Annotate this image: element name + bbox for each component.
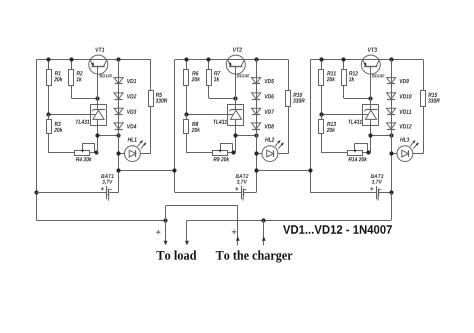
node load plus junction — [163, 218, 167, 222]
LED HL1 — [119, 138, 147, 162]
diode VD6 — [252, 93, 274, 100]
LED HL3 — [391, 137, 419, 161]
transistor VT1 — [89, 48, 112, 105]
node R1 top junction — [46, 57, 50, 61]
wire R7 to base of VT2 — [209, 86, 236, 99]
resistor R6 — [184, 60, 201, 115]
diode VD8 — [252, 123, 274, 130]
wire load minus terminal — [185, 220, 189, 245]
node battery 3 minus junction — [389, 190, 393, 194]
transistor VT2 — [226, 48, 249, 106]
diode VD2 — [114, 93, 136, 100]
node divider junction block 3 — [319, 112, 323, 116]
wire R2 to base of VT1 — [71, 86, 97, 99]
wire pack minus bus — [187, 220, 391, 222]
node collector junction VT1 — [116, 57, 120, 61]
wire charger plus loop — [166, 206, 238, 241]
node plus label charger — [232, 230, 237, 235]
wire TL431 anode link block 2 — [235, 135, 256, 153]
resistor R11 — [319, 60, 336, 115]
resistor R12 — [342, 60, 358, 86]
diode VD9 — [387, 78, 409, 84]
potentiometer R14 — [348, 143, 371, 161]
diode VD5 — [252, 78, 274, 84]
op-amp U1 TL431 — [76, 105, 107, 136]
wire diode chain block 2 — [256, 60, 258, 193]
node R9 junction — [231, 150, 235, 154]
potentiometer R4 — [75, 143, 98, 161]
node R7 top junction — [206, 57, 210, 61]
node R6 top junction — [184, 57, 188, 61]
wire pack plus bus — [36, 220, 165, 222]
wire diode chain block 1 — [118, 60, 120, 193]
LED HL2 — [256, 137, 284, 161]
wire top rail block 1 — [36, 59, 150, 61]
node base junction VT3 — [368, 96, 372, 100]
diode VD7 — [252, 108, 275, 114]
node rail A to block2 rail — [172, 168, 176, 172]
diode VD12 — [387, 123, 412, 130]
resistor R5 — [140, 60, 167, 154]
wire ref line to TL431 block 1 — [49, 114, 95, 116]
resistor R7 — [207, 60, 221, 86]
wire left rail block 3 — [310, 60, 312, 193]
wire pack minus down — [391, 193, 393, 221]
diode VD11 — [387, 108, 412, 114]
wire ref line to TL431 block 2 — [187, 114, 233, 116]
op-amp U3 TL431 — [348, 105, 378, 136]
node R14 junction — [366, 150, 370, 154]
resistor R13 — [319, 114, 348, 152]
wire top rail block 2 — [175, 59, 288, 61]
node anode junction block 2 — [233, 133, 237, 137]
resistor R3 — [47, 114, 75, 152]
node caption To load — [157, 250, 197, 259]
transistor VT3 — [361, 48, 384, 106]
node LED HL1 left junction — [116, 151, 120, 155]
wire charger plus terminal arrow — [236, 236, 240, 245]
battery BAT2 — [175, 174, 256, 200]
node base junction VT2 — [233, 96, 237, 100]
node diode chain junction block 3 — [389, 133, 393, 137]
node caption To the charger — [216, 250, 292, 262]
diode VD1 — [114, 78, 136, 84]
resistor R2 — [69, 60, 83, 86]
node plus label load — [156, 230, 161, 235]
node divider junction block 1 — [46, 112, 50, 116]
wire TL431 anode link block 1 — [98, 135, 119, 153]
node anode junction block 3 — [368, 133, 372, 137]
node collector junction VT3 — [389, 57, 393, 61]
diode VD4 — [114, 123, 136, 130]
node battery 1 plus junction — [34, 190, 38, 194]
wire load plus terminal — [164, 220, 168, 245]
node LED HL2 left junction — [254, 151, 258, 155]
node R11 top junction — [319, 57, 323, 61]
battery BAT1 — [36, 174, 118, 200]
node anode junction block 1 — [95, 133, 99, 137]
node base junction VT1 — [95, 96, 99, 100]
node chain 2 bottom — [254, 168, 258, 172]
node LED HL3 left junction — [389, 151, 393, 155]
wire diode chain block 3 — [391, 60, 393, 193]
resistor R8 — [184, 114, 213, 152]
wire top rail block 3 — [311, 59, 424, 61]
resistor R1 — [47, 60, 63, 115]
op-amp U2 TL431 — [213, 105, 243, 136]
wire R12 to base of VT3 — [344, 86, 371, 99]
node R12 top junction — [341, 57, 345, 61]
node diode chain junction block 2 — [254, 133, 258, 137]
resistor R10 — [278, 60, 305, 154]
resistor R15 — [413, 60, 440, 154]
node charger minus junction — [261, 218, 265, 222]
node rail B to block3 rail — [308, 168, 312, 172]
wire left rail block 2 — [174, 60, 176, 193]
node chain 1 bottom — [116, 168, 120, 172]
node divider junction block 2 — [184, 112, 188, 116]
potentiometer R9 — [213, 143, 236, 161]
wire left rail block 1 (pack +) — [36, 60, 38, 221]
diode VD10 — [387, 93, 412, 100]
node diode chain junction block 1 — [116, 133, 120, 137]
node R2 top junction — [69, 57, 73, 61]
node R4 junction — [94, 150, 98, 154]
wire charger minus terminal — [262, 220, 266, 245]
wire bottom rail block 2 — [256, 170, 311, 172]
battery BAT3 — [311, 174, 392, 200]
diode VD3 — [114, 108, 136, 114]
wire ref line to TL431 block 3 — [322, 114, 368, 116]
node caption VD1...VD12 - 1N4007 — [283, 225, 392, 234]
wire TL431 anode link block 3 — [370, 135, 391, 153]
wire bottom rail block 1 — [119, 170, 175, 172]
node collector junction VT2 — [254, 57, 258, 61]
